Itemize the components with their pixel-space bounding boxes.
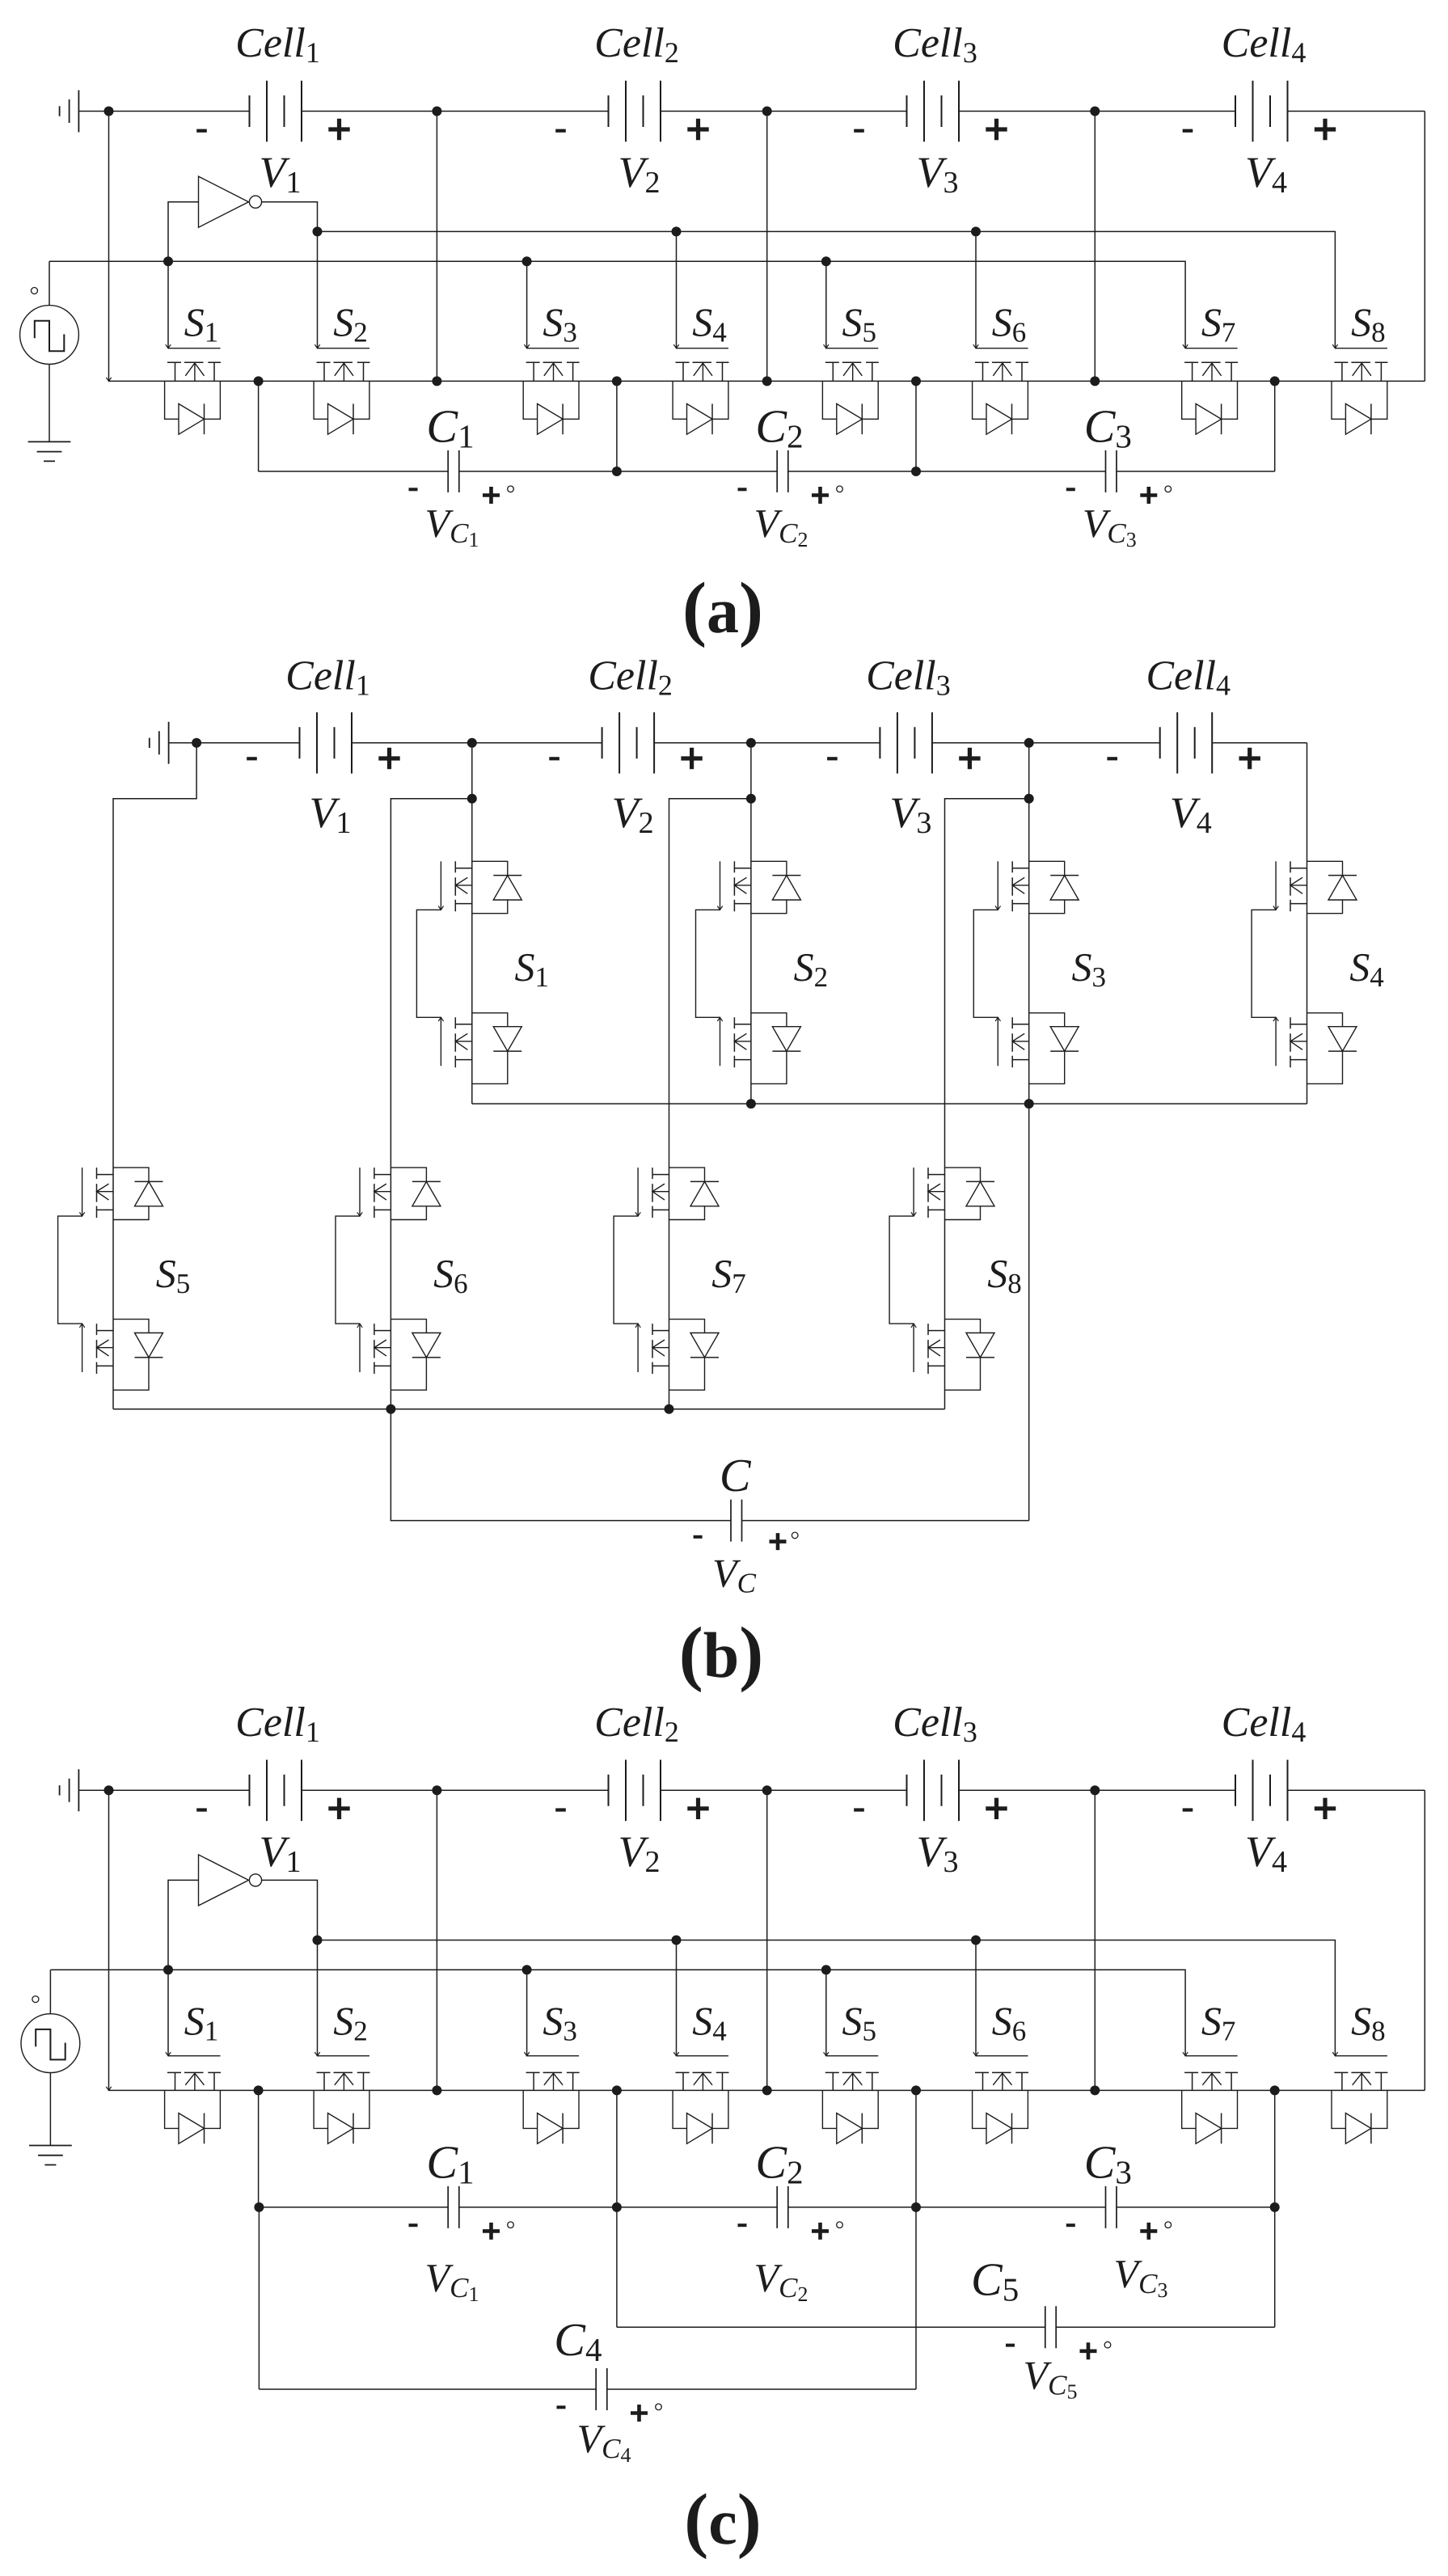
wire: inverter output to complement bus (a) xyxy=(262,202,318,232)
wire: gate leads from buses down to switches (c) xyxy=(168,1940,976,2056)
switch S8: n-MOSFET with body diode (a) xyxy=(1335,348,1387,349)
polarity marks of Cell1 xyxy=(196,129,207,133)
junction: cell node 2 at switch row (c) xyxy=(762,2085,772,2095)
wire: cell node 1 down to S1 (b) xyxy=(471,743,473,1104)
switch S5: n-MOSFET with body diode (c) xyxy=(826,2055,879,2057)
polarity marks of Cell2 xyxy=(555,1808,566,1811)
switch S1 (b): bidirectional MOSFET pair xyxy=(454,861,456,911)
capacitor C1 (c) xyxy=(448,2186,459,2228)
terminal marker at pulse source output (c) xyxy=(32,1996,39,2003)
switch S3 (b): bidirectional MOSFET pair xyxy=(1011,861,1013,911)
switch S5 (b): bidirectional MOSFET pair xyxy=(96,1168,98,1218)
wire: gate leads from buses down to switches (a) xyxy=(168,231,976,348)
wire: cell node 2 tap down to switch row (c) xyxy=(766,1790,768,2090)
switch S6: n-MOSFET with body diode (a) xyxy=(976,348,1028,349)
capacitor C2 (a) xyxy=(777,450,788,492)
switch S8 (b): bidirectional MOSFET pair xyxy=(927,1168,929,1218)
polarity marks of C5 (c) xyxy=(1006,2344,1015,2347)
polarity marks of Cell2 xyxy=(555,129,566,133)
ground (chassis) at battery string negative end xyxy=(150,722,169,764)
polarity marks of C1 (a) xyxy=(409,488,418,491)
terminal marker at pulse source output (a) xyxy=(32,288,38,294)
switch S4 (b): bidirectional MOSFET pair xyxy=(1290,861,1291,911)
junction: ground node on top rail (a) xyxy=(104,107,114,116)
ground (chassis) at battery string negative end xyxy=(60,1769,79,1811)
wire: cell node 1 tap down to switch row (a) xyxy=(436,112,437,382)
switch S4: n-MOSFET with body diode (c) xyxy=(677,2055,729,2057)
junction: cell node 3 at switch row (a) xyxy=(1090,376,1100,386)
ground (chassis) at battery string negative end xyxy=(60,91,79,133)
polarity marks of Cell1 (b) xyxy=(247,757,257,760)
switch S8: n-MOSFET with body diode (c) xyxy=(1335,2055,1387,2057)
junction: ground node (b) xyxy=(192,738,201,748)
polarity marks of C1 (c) xyxy=(409,2223,418,2227)
junction: node between S7 and S8 (c) xyxy=(1270,2085,1280,2095)
junction: bus dots on clock bus (c) xyxy=(163,1965,173,1974)
wire: cell node 3 tap down to switch row (a) xyxy=(1094,112,1095,382)
battery cell Cell1 xyxy=(250,1760,302,1822)
net: inverted-clock bus for even switches (c) xyxy=(318,1940,1336,2056)
capacitor C3 (a) xyxy=(1106,450,1117,492)
switch S4: n-MOSFET with body diode (a) xyxy=(677,348,729,349)
switch S5: n-MOSFET with body diode (a) xyxy=(826,348,879,349)
battery cell Cell2 (b) xyxy=(602,712,655,774)
capacitor C2 (c) xyxy=(777,2186,788,2228)
wire: ground node tap down to switch row (a) xyxy=(108,112,110,382)
net: inverted-clock bus for even switches (a) xyxy=(318,231,1336,348)
battery cell Cell2 xyxy=(609,81,661,142)
net: negative plate rail joining S5-S8 (b) xyxy=(113,1408,945,1410)
ground symbol xyxy=(29,2146,72,2165)
switch S7 (b): bidirectional MOSFET pair xyxy=(652,1168,653,1218)
wire: ground node down and over to S5 (b) xyxy=(113,743,196,1409)
wire: verticals from switch row to capacitor row (c) xyxy=(259,2090,1275,2207)
wire: bottom rail down to capacitor C left plate (b) xyxy=(390,1409,731,1521)
polarity marks of Cell3 xyxy=(854,1808,864,1811)
wire: cell node 3 tap down to switch row (c) xyxy=(1094,1790,1095,2090)
junction: cell node 1 (b) xyxy=(467,738,477,748)
junction: node between S1 and S2 (a) xyxy=(254,376,264,386)
junction: cell node 2 at switch row (a) xyxy=(762,376,772,386)
junction: cell node 2 on top rail (c) xyxy=(762,1785,772,1795)
net: capacitor row (c) xyxy=(259,2206,1275,2208)
net: C5 row (c) xyxy=(617,2326,1275,2328)
svg-text:(c): (c) xyxy=(684,2480,761,2560)
wire: capacitor C right plate over to S1-S4 rail (b) xyxy=(742,1520,1029,1522)
wire: inverter input from clock bus (c) xyxy=(168,1880,199,1970)
polarity marks of Cell3 (b) xyxy=(827,757,838,760)
inverter (NOT gate) driving V1 complement bus xyxy=(199,176,249,227)
wire: cell node 1 tap down to switch row (c) xyxy=(436,1790,437,2090)
net: C4 row (c) xyxy=(259,2388,916,2390)
switch S7: n-MOSFET with body diode (c) xyxy=(1185,2055,1238,2057)
wire: pulse source to ground (a) xyxy=(49,364,50,441)
wire: C2/C3 node tap down to C4 row (c) xyxy=(915,2207,917,2389)
junction: cell node 1 at switch row (c) xyxy=(432,2085,441,2095)
polarity marks of Cell4 xyxy=(1183,129,1193,133)
junction: node between S5 and S6 (a) xyxy=(911,376,921,386)
polarity marks of C2 (a) xyxy=(738,488,747,491)
switch S2: n-MOSFET with body diode (c) xyxy=(318,2055,370,2057)
battery cell Cell4 xyxy=(1235,81,1288,142)
junction: bus dots on inverted-clock bus (c) xyxy=(313,1936,323,1945)
wire: ground node tap down to switch row (c) xyxy=(108,1790,110,2090)
wire: C1 row left tap down to C4 row (c) xyxy=(258,2207,260,2389)
switch S2: n-MOSFET with body diode (a) xyxy=(318,348,370,349)
battery cell Cell1 xyxy=(250,81,302,142)
wire: cell node 3 down to S3 (b) xyxy=(1028,743,1030,1521)
junction: node between S3 and S4 (c) xyxy=(612,2085,622,2095)
pulse (square-wave) source V_pulse xyxy=(20,306,79,365)
pulse (square-wave) source V_pulse xyxy=(21,2014,80,2073)
switch S2 (b): bidirectional MOSFET pair xyxy=(733,861,735,911)
net: switch source/drain row (a) xyxy=(109,380,1425,382)
switch S1: n-MOSFET with body diode (a) xyxy=(168,348,221,349)
switch S3: n-MOSFET with body diode (a) xyxy=(527,348,580,349)
polarity marks of C2 (c) xyxy=(738,2223,747,2227)
battery cell Cell3 (b) xyxy=(880,712,932,774)
polarity marks of Cell4 xyxy=(1183,1808,1193,1811)
junction: cell node 1 on top rail (c) xyxy=(432,1785,441,1795)
switch S3: n-MOSFET with body diode (c) xyxy=(527,2055,580,2057)
junction: capacitor row taps (a) xyxy=(612,467,622,476)
switch S6: n-MOSFET with body diode (c) xyxy=(976,2055,1028,2057)
junction: cell node 3 on top rail (c) xyxy=(1090,1785,1100,1795)
capacitor C4 (c) xyxy=(596,2368,607,2410)
junction: bus dots on clock bus (a) xyxy=(163,256,173,266)
polarity marks of Cell1 xyxy=(196,1808,207,1811)
polarity marks of Cell3 xyxy=(854,129,864,133)
polarity marks of C4 (c) xyxy=(557,2405,566,2409)
inverter (NOT gate) driving V1 complement bus xyxy=(199,1855,249,1906)
junction: bus dots on inverted-clock bus (a) xyxy=(313,226,323,236)
junction: node between S1 and S2 (c) xyxy=(254,2085,264,2095)
battery cell Cell3 xyxy=(907,81,960,142)
wire: C3 row right tap down to C5 row (c) xyxy=(1274,2207,1276,2327)
junction: branch node feeding S8 (b) xyxy=(1024,794,1034,804)
wire: right edge from Cell4 + terminal down to S8 (c) xyxy=(1424,1790,1425,2090)
wire: inverter input from clock bus (a) xyxy=(168,202,199,262)
wire: branch over and down to S8 (b) xyxy=(945,799,1029,1409)
junction: rail dots at S2 S3 (b) xyxy=(746,1099,756,1109)
capacitor C3 (c) xyxy=(1106,2186,1117,2228)
net: switch source/drain row (c) xyxy=(109,2089,1425,2091)
wire: right edge from Cell4 + terminal down to S8 (a) xyxy=(1424,112,1425,382)
junction: cell node 2 (b) xyxy=(746,738,756,748)
svg-text:(b): (b) xyxy=(679,1613,763,1693)
wire: C2 row tap down to C5 row (c) xyxy=(616,2207,618,2327)
junction: ground node on top rail (c) xyxy=(104,1785,114,1795)
switch S6 (b): bidirectional MOSFET pair xyxy=(374,1168,375,1218)
junction: capacitor row taps (c) xyxy=(254,2202,264,2212)
polarity marks of Cell4 (b) xyxy=(1107,757,1117,760)
wire: battery string top rail (a) xyxy=(78,111,1425,112)
net: clock bus for odd switches (a) xyxy=(49,261,1185,348)
battery cell Cell4 xyxy=(1235,1760,1288,1822)
polarity marks of C3 (a) xyxy=(1066,488,1075,491)
svg-text:(a): (a) xyxy=(682,568,763,648)
battery cell Cell2 xyxy=(609,1760,661,1822)
wire: battery string top rail (b) xyxy=(169,742,1307,744)
wire: branch over and down to S7 (b) xyxy=(669,799,751,1409)
wire: verticals from switch row to capacitor row (a) xyxy=(259,381,1275,471)
junction: cell node 1 on top rail (a) xyxy=(432,107,441,116)
wire: branch over and down to S6 (b) xyxy=(390,799,471,1409)
junction: cell node 1 at switch row (a) xyxy=(432,376,441,386)
junction: node between S5 and S6 (c) xyxy=(911,2085,921,2095)
capacitor C5 (c) xyxy=(1045,2306,1056,2348)
polarity marks of C3 (c) xyxy=(1066,2223,1075,2227)
wire: cell node 2 tap down to switch row (a) xyxy=(766,112,768,382)
junction: cell node 2 on top rail (a) xyxy=(762,107,772,116)
net: clock bus for odd switches (c) xyxy=(50,1970,1185,2055)
junction: branch node feeding S7 (b) xyxy=(746,794,756,804)
junction: node between S7 and S8 (a) xyxy=(1270,376,1280,386)
junction: cell node 3 (b) xyxy=(1024,738,1034,748)
junction: cell node 3 on top rail (a) xyxy=(1090,107,1100,116)
svg-text:C: C xyxy=(720,1449,752,1501)
ground symbol xyxy=(28,441,71,461)
junction: branch node feeding S6 (b) xyxy=(467,794,477,804)
wire: battery string top rail (c) xyxy=(78,1789,1425,1791)
battery cell Cell4 (b) xyxy=(1160,712,1213,774)
net: capacitor row (a) xyxy=(259,471,1275,472)
capacitor C1 (a) xyxy=(448,450,459,492)
battery cell Cell1 (b) xyxy=(300,712,353,774)
wire: inverter output to complement bus (c) xyxy=(262,1880,318,1940)
junction: rail dots at S6 S7 (b) xyxy=(386,1404,395,1414)
junction: cell node 3 at switch row (c) xyxy=(1090,2085,1100,2095)
net: positive plate rail joining S1-S4 (b) xyxy=(472,1103,1307,1104)
polarity marks of C (b) xyxy=(694,1535,703,1539)
junction: node between S3 and S4 (a) xyxy=(612,376,622,386)
capacitor C (b) xyxy=(731,1500,742,1542)
switch S7: n-MOSFET with body diode (a) xyxy=(1185,348,1238,349)
wire: Cell4 + terminal down to S4 (b) xyxy=(1307,743,1308,1104)
polarity marks of Cell2 (b) xyxy=(549,757,559,760)
wire: cell node 2 down to S2 (b) xyxy=(750,743,752,1104)
switch S1: n-MOSFET with body diode (c) xyxy=(168,2055,221,2057)
wire: pulse source to ground (c) xyxy=(49,2073,51,2146)
battery cell Cell3 xyxy=(907,1760,960,1822)
